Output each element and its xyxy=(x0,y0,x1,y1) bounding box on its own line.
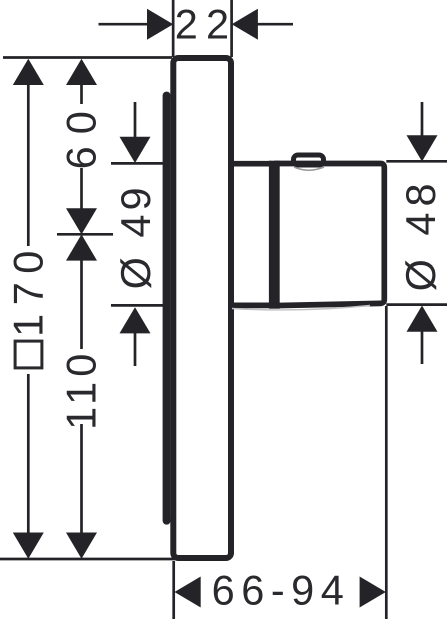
extension line plate top xyxy=(3,56,172,59)
arrow d49 top xyxy=(120,137,151,163)
arrow 170 top xyxy=(13,59,44,85)
arrow depth left xyxy=(175,577,201,608)
extension line d48 top xyxy=(386,160,447,163)
extension line depth left xyxy=(172,561,175,619)
seal gasket behind plate xyxy=(163,92,171,525)
arrow 110 bottom xyxy=(66,533,97,559)
dimension line 170 lower segment xyxy=(27,374,30,534)
svg-text:Ø 49: Ø 49 xyxy=(112,183,159,289)
dimension line 60 lower segment xyxy=(80,168,83,209)
arrow 60 bottom xyxy=(66,208,97,234)
extension line d48 bottom xyxy=(386,303,447,306)
cartridge stem bottom line xyxy=(231,303,272,309)
svg-text:110: 110 xyxy=(58,349,105,430)
arrow 110 top xyxy=(66,234,97,260)
escutcheon plate (side view) xyxy=(173,58,231,558)
handle knob outline xyxy=(274,164,384,306)
extension line 22 left xyxy=(172,0,175,57)
faint shadow arc under tab xyxy=(294,167,324,170)
arrow 22 right xyxy=(232,9,258,40)
arrow 60 top xyxy=(66,59,97,85)
svg-text:66-94: 66-94 xyxy=(212,567,351,614)
dimension line 22 right segment xyxy=(257,23,293,26)
extension line plate bottom xyxy=(0,558,176,561)
arrow d48 top xyxy=(407,135,438,161)
dimension line 60 upper segment xyxy=(80,84,83,104)
svg-text:2 2: 2 2 xyxy=(175,1,228,48)
extension line 22 right xyxy=(230,0,233,57)
cartridge stem top line xyxy=(231,161,272,167)
arrow d49 bottom xyxy=(120,307,151,333)
knob top tab xyxy=(294,155,324,165)
svg-text:Ø 48: Ø 48 xyxy=(397,177,444,291)
arrow 170 bottom xyxy=(13,533,44,559)
dimension line d48 bottom segment xyxy=(421,331,424,364)
extension line handle axis tick xyxy=(57,233,113,236)
dimension line 110 lower segment xyxy=(80,424,83,534)
dimension line 110 upper segment xyxy=(80,260,83,349)
svg-text:60: 60 xyxy=(58,99,105,169)
extension line depth right xyxy=(385,306,388,619)
extension tick d49 bottom xyxy=(111,304,165,307)
arrow 22 left xyxy=(147,9,173,40)
knob rear flange bar xyxy=(269,161,280,309)
label 170 square symbol xyxy=(15,341,42,368)
svg-text:170: 170 xyxy=(5,242,52,337)
dimension line 22 left segment xyxy=(99,23,149,26)
dimension line d48 top segment xyxy=(421,102,424,137)
arrow depth right xyxy=(360,577,386,608)
faint shadow arc below knob bottom xyxy=(232,306,370,310)
extension tick d49 top xyxy=(111,162,165,165)
dimension line d49 bottom segment xyxy=(134,332,137,366)
seal seam highlight xyxy=(170,97,172,519)
arrow d48 bottom xyxy=(407,306,438,332)
dimension line d49 top segment xyxy=(134,102,137,138)
dimension line 170 upper segment xyxy=(27,84,30,246)
